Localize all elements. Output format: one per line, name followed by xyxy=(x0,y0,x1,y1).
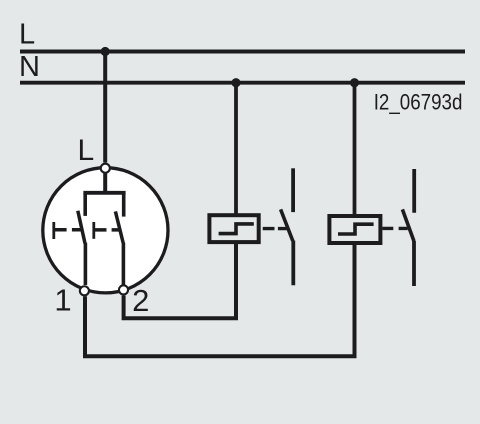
wire from N bus down to timer K2 xyxy=(353,83,357,216)
svg-text:L: L xyxy=(78,134,95,167)
S1 contact 1 actuator dashed link xyxy=(54,228,82,232)
terminal 1 of S1 (open circle) xyxy=(80,286,89,295)
wire from terminal 2 to K1 xyxy=(124,244,236,318)
wire from L bus down to switch terminal L xyxy=(103,52,107,163)
S1 internal feed wire xyxy=(103,173,107,194)
svg-text:I2_06793d: I2_06793d xyxy=(374,89,463,114)
S1 internal top bar xyxy=(83,191,125,195)
svg-text:2: 2 xyxy=(132,283,149,318)
K1 step-function symbol xyxy=(219,224,254,234)
S1 contact 1 lower lead xyxy=(84,243,88,285)
junction node on L bus xyxy=(101,47,110,56)
S1 contact 2 lower lead xyxy=(122,243,126,285)
K2 contact lower lead xyxy=(412,241,416,286)
svg-text:1: 1 xyxy=(54,282,71,317)
K1 contact blade xyxy=(281,209,293,241)
K1 contact upper lead xyxy=(291,168,295,212)
svg-text:N: N xyxy=(19,51,40,83)
bus wire L xyxy=(20,50,465,54)
K2 mechanical link (dashed) xyxy=(382,227,407,230)
timer relay K1 box xyxy=(209,215,258,242)
K1 contact lower lead xyxy=(291,241,295,286)
wire from terminal 1 to K2 xyxy=(85,245,355,357)
svg-text:L: L xyxy=(19,19,35,51)
K1 mechanical link (dashed) xyxy=(263,227,288,230)
terminal 2 of S1 (open circle) xyxy=(119,285,128,294)
S1 contact 1 actuator T-bar xyxy=(52,222,55,239)
S1 contact 1 upper lead xyxy=(83,193,87,216)
junction node on N bus feeding timer K2 xyxy=(350,78,359,87)
terminal L of S1 (open circle) xyxy=(101,164,110,173)
K2 step-function symbol xyxy=(338,224,374,234)
S1 contact 2 actuator dashed link xyxy=(94,228,120,232)
series switch S1 body circle xyxy=(43,168,168,293)
S1 contact 2 blade xyxy=(115,211,123,243)
S1 contact 2 upper lead xyxy=(122,193,126,217)
S1 contact 1 blade xyxy=(78,211,85,244)
junction node on N bus feeding timer K1 xyxy=(231,78,240,87)
timer relay K2 box xyxy=(329,216,380,243)
S1 contact 2 actuator T-bar xyxy=(92,222,95,239)
K2 contact upper lead xyxy=(412,169,416,213)
bus wire N xyxy=(20,81,465,85)
K2 contact blade xyxy=(402,209,414,241)
wire from N bus down to timer K1 xyxy=(234,83,238,215)
